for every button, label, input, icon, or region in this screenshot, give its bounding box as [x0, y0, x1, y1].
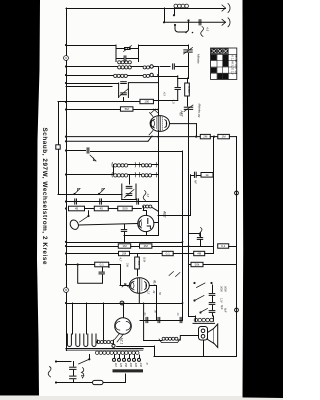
choke step — [178, 336, 183, 341]
rect filament coil — [97, 340, 99, 343]
wire drop 156 — [156, 286, 158, 321]
heater loop 1b — [76, 334, 80, 347]
capacitor C nf — [193, 172, 195, 177]
wire top row — [66, 8, 226, 10]
wire rail2 upper — [188, 111, 190, 276]
wire row246 — [66, 246, 118, 248]
svg-text:2n: 2n — [143, 312, 147, 316]
trimmer C2b — [188, 45, 190, 49]
trimmer C2 — [125, 47, 131, 49]
wire row101 — [58, 101, 140, 103]
wire row83 — [66, 83, 119, 85]
tuning capacitor C9a — [126, 185, 132, 187]
svg-text:0,5M: 0,5M — [187, 86, 191, 93]
switch link U — [175, 22, 189, 33]
wire rail1 — [182, 151, 184, 320]
wire row174 — [66, 174, 114, 176]
left scan border — [0, 0, 40, 396]
svg-text:4M: 4M — [197, 252, 202, 256]
tube V1 pins — [149, 113, 153, 136]
mains prong L — [55, 360, 57, 362]
capacitor C14 — [200, 233, 202, 237]
tuning capacitor C5a — [121, 81, 127, 83]
svg-text:Mittelw.: Mittelw. — [198, 104, 202, 114]
coil parens — [112, 163, 157, 178]
tuning capacitor C9b — [126, 193, 132, 195]
capacitor C15 — [102, 267, 104, 271]
contact dots — [185, 32, 187, 34]
wire row241 — [66, 242, 183, 244]
wire row109 — [66, 109, 121, 111]
speaker cone — [208, 329, 214, 344]
mains cap 1 — [73, 362, 75, 367]
wire v3 k — [138, 293, 140, 303]
wire screen row — [66, 140, 148, 142]
switch wave mark — [201, 27, 204, 37]
voltage arrow — [82, 368, 84, 379]
tuning capacitor C5b — [121, 92, 127, 94]
wire speaker down — [203, 340, 205, 356]
svg-text:8μF: 8μF — [224, 308, 228, 313]
wire rc top — [178, 78, 187, 80]
wire rr3 — [229, 246, 237, 248]
tube V3 envelope — [129, 278, 149, 294]
svg-text:220: 220 — [134, 362, 137, 368]
svg-text:150: 150 — [124, 363, 127, 368]
wire coil down — [143, 207, 145, 211]
wire choke drop — [143, 303, 145, 340]
right scan border — [243, 0, 284, 398]
wire rs2 — [173, 253, 194, 255]
svg-text:0,1: 0,1 — [221, 244, 226, 248]
wire row75b — [128, 75, 143, 77]
coil L6a — [114, 174, 128, 177]
wire row150 — [66, 150, 86, 152]
svg-text:125: 125 — [119, 363, 122, 368]
junction — [65, 44, 67, 46]
resistor R11 — [140, 244, 152, 248]
svg-text:4f: 4f — [145, 363, 148, 365]
svg-text:2M: 2M — [144, 244, 149, 248]
pickup jack — [69, 219, 80, 231]
mains wave — [48, 367, 51, 377]
wave mark gang2 — [143, 191, 146, 201]
wire right bus — [236, 137, 238, 356]
svg-text:1M: 1M — [222, 135, 227, 139]
tube V1 envelope — [150, 116, 169, 132]
resistor R10 — [118, 244, 130, 248]
heater loop 1a — [67, 334, 71, 347]
table grid — [211, 48, 237, 79]
wire row300 — [66, 303, 183, 305]
svg-text:1n: 1n — [176, 313, 180, 316]
resistor R13 — [119, 251, 130, 255]
coil L4b — [143, 74, 149, 77]
capacitor C12 — [136, 199, 138, 204]
resistor R4 — [200, 134, 210, 138]
rail2 junction — [188, 136, 190, 138]
svg-text:1,5f: 1,5f — [220, 298, 224, 303]
svg-text:2M: 2M — [203, 135, 208, 139]
capacitor C10 — [74, 199, 76, 204]
capacitor C13 under — [124, 225, 126, 229]
wire row109b — [133, 109, 158, 111]
svg-text:50: 50 — [158, 292, 162, 295]
pickup arm — [87, 215, 89, 217]
svg-text:1W: 1W — [126, 263, 130, 267]
wire rr — [131, 246, 140, 248]
tuning gang 1 frame — [119, 83, 129, 98]
capacitor C8 — [86, 148, 88, 153]
coil L8 — [143, 205, 152, 208]
junction ring ps — [120, 301, 124, 305]
resistor R5 — [218, 134, 230, 138]
grid loop — [78, 265, 109, 284]
capacitor C16 — [145, 317, 147, 322]
wire stub b — [174, 8, 176, 15]
svg-text:50k: 50k — [195, 263, 200, 267]
tone contact 2 — [193, 299, 195, 301]
wire rs3 — [205, 253, 214, 255]
wire row264 right — [190, 264, 237, 266]
fuse — [93, 380, 104, 384]
tone caps — [212, 285, 214, 293]
resistor R3 vertical — [187, 78, 189, 83]
svg-text:5000: 5000 — [220, 286, 224, 292]
table black cells — [211, 55, 228, 79]
wire v3 anode — [149, 285, 156, 287]
wire row174 mid — [129, 174, 142, 176]
capacitor C1 — [198, 20, 200, 25]
choke row — [144, 340, 162, 342]
wire rr2 — [152, 246, 214, 248]
svg-text:G 1,6: G 1,6 — [231, 68, 235, 75]
bottom page edge — [0, 396, 242, 400]
wire gang bottom — [123, 98, 125, 102]
tube V1 anode — [165, 120, 167, 128]
wire x157 vertical 2 — [158, 131, 160, 236]
svg-text:100: 100 — [144, 100, 149, 104]
coil end ring 2 — [150, 73, 153, 76]
wire bus2 corner row — [58, 194, 122, 196]
svg-text:4,5: 4,5 — [172, 100, 176, 105]
grid marks — [122, 284, 129, 288]
switch arm 1 — [73, 193, 75, 195]
wire bottom row — [154, 356, 237, 358]
wire row194 — [58, 194, 122, 196]
wire anode drop — [213, 137, 215, 246]
wire if frame — [113, 165, 115, 175]
svg-text:T 4,0: T 4,0 — [234, 68, 238, 74]
svg-text:AZ 1: AZ 1 — [120, 337, 124, 345]
table entries — [231, 55, 239, 75]
wire grid drop — [188, 67, 190, 79]
tap stubs — [114, 355, 116, 358]
resistor R1 — [140, 99, 154, 103]
svg-text:45: 45 — [100, 207, 104, 211]
coil L3b — [143, 66, 149, 69]
wire row101b — [153, 100, 177, 102]
wire fuse right — [103, 382, 126, 384]
transformer secondary — [95, 351, 139, 354]
mains switch — [79, 360, 89, 365]
heater loop 2b — [92, 334, 96, 347]
tube V2 electrodes — [139, 220, 141, 228]
resistor R2 — [120, 107, 133, 111]
wire stub a — [164, 8, 166, 22]
resistor R7 — [94, 206, 108, 211]
wire fil return — [117, 346, 154, 348]
wire main bus left — [66, 8, 68, 351]
resistor R18 vertical — [137, 254, 139, 258]
wire nf — [191, 175, 194, 177]
trimmer C7 — [184, 106, 192, 108]
resistor R15 — [194, 251, 205, 255]
tone contact 3 — [199, 311, 201, 313]
wire row253 — [66, 253, 119, 255]
filament end ring — [112, 344, 115, 347]
svg-text:NF: NF — [194, 180, 198, 184]
wire row75 — [66, 75, 114, 77]
wave mark C14 — [199, 228, 202, 238]
svg-text:4,5: 4,5 — [206, 27, 210, 32]
wire to bus — [229, 136, 236, 138]
coil L5a — [114, 164, 128, 167]
rectifier pins — [115, 334, 124, 343]
wire j — [210, 136, 218, 138]
wire row208 — [65, 207, 67, 209]
tube V2 right lead — [154, 222, 158, 224]
output transformer — [195, 316, 197, 321]
svg-text:1M: 1M — [197, 114, 201, 118]
svg-text:4,5: 4,5 — [146, 194, 150, 198]
mains prong N — [55, 381, 57, 383]
wire bus2 — [58, 102, 60, 194]
svg-text:1,5: 1,5 — [147, 291, 151, 295]
wire choke to magnet — [183, 335, 198, 337]
svg-text:1M: 1M — [122, 244, 127, 248]
wire rail2 low — [188, 275, 190, 316]
wire row66 — [66, 66, 117, 68]
tube V3 electrodes — [131, 281, 134, 290]
rectifier V4 electrodes — [116, 322, 131, 331]
antenna symbol 2 — [222, 19, 226, 25]
choke coil — [162, 337, 178, 340]
capacitor C4 coupling — [160, 66, 170, 68]
wire row320 — [140, 320, 183, 322]
coil L3a — [118, 66, 132, 69]
coil L4a — [114, 74, 128, 77]
svg-text:8μF: 8μF — [220, 305, 224, 310]
resistor R17 — [95, 262, 109, 267]
resistor R16 — [191, 262, 203, 266]
heater vertical 3 — [103, 303, 105, 340]
transformer core — [66, 348, 143, 350]
coil L5b — [141, 164, 151, 167]
svg-text:200: 200 — [129, 362, 132, 368]
capacitor C18 — [179, 317, 181, 322]
svg-text:500: 500 — [122, 207, 127, 211]
tube V1 grid — [158, 116, 160, 131]
pickup wire — [79, 224, 138, 226]
svg-text:0,3: 0,3 — [137, 261, 141, 265]
heater vertical 1 — [72, 303, 74, 334]
wire row two — [164, 21, 226, 23]
wire r — [85, 208, 95, 210]
svg-text:50: 50 — [179, 113, 183, 116]
capacitor C17 — [157, 317, 159, 322]
rectifier V4 envelope — [123, 303, 125, 318]
svg-text:0,1: 0,1 — [166, 252, 171, 256]
wire row66b — [131, 66, 143, 68]
terminal chassis — [64, 288, 69, 293]
wire row264 left — [66, 264, 94, 266]
wire to grid — [109, 264, 120, 266]
switch arm 2 — [98, 193, 100, 195]
resistor R6 — [69, 206, 85, 211]
coil L2 — [118, 61, 132, 64]
switch wave row150 — [90, 155, 96, 161]
wire row86 stub — [66, 86, 112, 88]
capacitor C11 — [99, 199, 101, 204]
heater vertical 2 — [86, 303, 88, 334]
resistor R14 — [162, 251, 173, 255]
tube V2 envelope — [138, 215, 154, 231]
resistor R9 — [201, 173, 213, 178]
coil L6b — [141, 174, 151, 177]
antenna symbol 1 — [222, 5, 226, 11]
wire r3 — [132, 208, 141, 210]
svg-text:AL4: AL4 — [153, 279, 157, 286]
wire V1 anode lead — [170, 123, 197, 125]
wire antenna row — [66, 45, 116, 47]
svg-text:1k: 1k — [205, 173, 209, 177]
svg-text:110: 110 — [114, 363, 117, 368]
junction ring right 1 — [235, 191, 239, 195]
svg-text:2k: 2k — [152, 290, 156, 294]
tuning gang 2 frame — [122, 184, 136, 200]
choke tray — [159, 339, 180, 343]
svg-text:240: 240 — [139, 362, 142, 368]
tube V1 cathode — [151, 119, 154, 128]
tap label bar — [113, 369, 144, 372]
svg-text:4,7: 4,7 — [119, 258, 123, 262]
svg-text:Mittelw.: Mittelw. — [197, 54, 201, 64]
svg-text:0,1: 0,1 — [100, 263, 105, 267]
heater loop 2a — [84, 334, 88, 347]
svg-text:2M: 2M — [122, 252, 127, 256]
filter frame — [116, 45, 139, 62]
terminal antenna — [64, 56, 69, 61]
coil L1 — [174, 4, 189, 8]
svg-text:Schaub, 297W, Wechselstrom, 2: Schaub, 297W, Wechselstrom, 2 Kreise — [41, 128, 48, 265]
mains cap 2 — [70, 375, 76, 377]
wire row201 — [66, 201, 158, 203]
svg-text:5M: 5M — [125, 107, 130, 111]
grid cap marks — [151, 109, 158, 113]
wire rc to trimmer — [187, 100, 189, 106]
wire rs — [130, 253, 163, 255]
wire r2 — [108, 208, 118, 210]
coil end ring 1 — [150, 65, 153, 68]
terminal earth — [56, 145, 60, 149]
svg-text:0,5k: 0,5k — [143, 257, 147, 263]
wire x157 vertical — [158, 67, 160, 117]
table header — [211, 49, 228, 54]
wire row150b — [91, 151, 183, 153]
wire row164 mid — [129, 164, 142, 166]
resistor R8 — [118, 206, 133, 211]
resistor R12 — [218, 244, 229, 248]
svg-text:AB2: AB2 — [163, 210, 167, 218]
svg-text:5000: 5000 — [224, 286, 228, 292]
capacitor C3 — [123, 56, 125, 61]
capacitor C6 gridleak — [177, 76, 179, 87]
junction ring right 2 — [235, 308, 239, 312]
svg-text:4,5: 4,5 — [163, 92, 167, 96]
tone contact row — [193, 282, 195, 284]
wire anode row — [66, 136, 200, 138]
band switch table frame — [211, 48, 237, 79]
svg-text:45: 45 — [75, 207, 79, 211]
speaker magnet — [199, 327, 208, 341]
